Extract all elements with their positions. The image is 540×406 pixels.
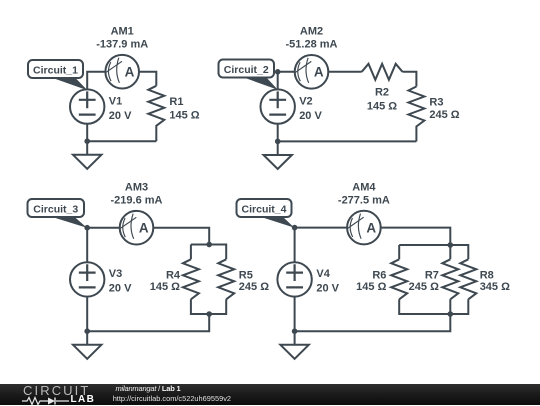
ammeter AM3 [120, 211, 154, 245]
svg-text:145 Ω: 145 Ω [367, 101, 397, 113]
svg-text:V2: V2 [299, 95, 312, 107]
svg-text:-51.28 mA: -51.28 mA [286, 39, 338, 51]
voltage source V1 [70, 89, 104, 123]
svg-text:R7: R7 [425, 270, 439, 282]
svg-text:245 Ω: 245 Ω [429, 109, 459, 121]
node top rail junction [206, 242, 212, 248]
svg-text:A: A [139, 221, 149, 236]
wire V4 bottom [294, 297, 296, 332]
svg-text:AM1: AM1 [111, 26, 134, 38]
svg-text:Circuit_4: Circuit_4 [242, 204, 287, 216]
ground G4 [280, 331, 308, 359]
wire bottom rail R4-R5 [191, 299, 226, 314]
node V4 bottom junction [292, 328, 298, 334]
svg-text:-137.9 mA: -137.9 mA [96, 39, 148, 51]
node V4 top junction [292, 225, 298, 231]
label AM4 reading [338, 182, 390, 207]
label R8 value [480, 270, 510, 294]
svg-text:AM2: AM2 [300, 26, 323, 38]
ground G2 [264, 141, 292, 169]
wire AM3 to parallel pair [153, 228, 209, 245]
resistor R3 [408, 87, 424, 142]
svg-text:145 Ω: 145 Ω [150, 281, 180, 293]
svg-text:20 V: 20 V [109, 283, 132, 295]
wire V3 bottom [86, 297, 88, 332]
svg-text:AM4: AM4 [352, 182, 376, 194]
voltage source V2 [261, 89, 295, 123]
svg-text:R2: R2 [375, 87, 389, 99]
wire top rail R4-R5 [191, 245, 226, 260]
ground G1 [73, 141, 101, 169]
label V2 value [299, 95, 322, 121]
svg-text:145 Ω: 145 Ω [356, 281, 386, 293]
svg-text:A: A [125, 65, 135, 80]
resistor R8 [460, 259, 476, 299]
svg-text:Circuit_2: Circuit_2 [224, 64, 269, 76]
net flag Circuit_1 [28, 60, 87, 90]
svg-text:-277.5 mA: -277.5 mA [338, 195, 390, 207]
resistor R5 [218, 259, 234, 299]
svg-text:245 Ω: 245 Ω [409, 281, 439, 293]
label R1 value [169, 96, 199, 121]
label R3 value [429, 97, 459, 122]
voltage source V4 [277, 262, 311, 296]
wire R2 to R3 [403, 72, 417, 87]
svg-text:145 Ω: 145 Ω [169, 109, 199, 121]
label V4 value [316, 268, 339, 294]
svg-text:R1: R1 [169, 96, 183, 108]
wire R3 bottom to V2 [278, 124, 417, 142]
svg-text:20 V: 20 V [316, 283, 339, 295]
svg-text:R8: R8 [480, 270, 494, 282]
svg-text:Circuit_1: Circuit_1 [33, 65, 78, 77]
resistor R7 [442, 259, 458, 299]
wire V4 top to AM4 [295, 228, 348, 263]
label AM2 reading [286, 26, 338, 51]
svg-text:R6: R6 [372, 270, 386, 282]
node V2 top junction [275, 69, 281, 75]
label R4 value [150, 270, 181, 294]
label R5 value [239, 270, 269, 294]
node V3 bottom junction [84, 328, 90, 334]
resistor R4 [183, 259, 199, 299]
wire parallel group to V4 [295, 314, 451, 331]
node V1-R1 junction [84, 138, 90, 144]
node V3 top junction [84, 225, 90, 231]
node bottom rail junction [206, 311, 212, 317]
label R7 value [409, 270, 439, 294]
wire AM1 to R1 [139, 72, 156, 86]
node V2-R3 junction [275, 139, 281, 145]
net flag Circuit_3 [28, 199, 87, 228]
resistor R2 [362, 64, 403, 80]
svg-text:AM3: AM3 [125, 182, 148, 194]
node top rail R7 junction [448, 242, 454, 248]
svg-text:A: A [366, 221, 376, 236]
svg-text:V1: V1 [109, 95, 122, 107]
label R6 value [356, 270, 386, 294]
wire AM4 to parallel group [381, 228, 451, 245]
svg-text:V4: V4 [316, 268, 330, 280]
footer url [113, 394, 231, 403]
label V3 value [109, 268, 132, 294]
CircuitLab logo LAB [71, 394, 96, 405]
svg-text:V3: V3 [109, 268, 122, 280]
svg-text:-219.6 mA: -219.6 mA [111, 195, 163, 207]
net flag Circuit_4 [237, 199, 295, 228]
svg-text:R4: R4 [166, 270, 181, 282]
wire V1 top to AM1 [87, 72, 105, 90]
label AM1 reading [96, 26, 148, 51]
voltage source V3 [70, 262, 104, 296]
net flag Circuit_2 [219, 60, 278, 90]
CircuitLab logo CIRCUIT [23, 383, 90, 398]
CircuitLab logo schematic doodle [22, 396, 72, 406]
ground G3 [73, 331, 101, 359]
label V1 value [109, 95, 132, 121]
svg-text:345 Ω: 345 Ω [480, 281, 510, 293]
label R2 value [367, 87, 397, 113]
resistor R6 [391, 259, 407, 299]
ammeter AM4 [347, 211, 381, 245]
wire V2 top to AM2 [278, 72, 295, 90]
wire top rail R6-R7-R8 [399, 245, 468, 259]
wire AM2 to R2 [328, 71, 361, 73]
svg-text:Circuit_3: Circuit_3 [33, 204, 78, 216]
wire bottom rail R6-R7-R8 [399, 299, 468, 314]
wire V3 top to AM3 [87, 228, 120, 263]
ammeter AM2 [295, 55, 329, 89]
footer title milanmangat / Lab 1 [116, 384, 181, 393]
svg-text:245 Ω: 245 Ω [239, 281, 269, 293]
svg-text:20 V: 20 V [109, 110, 132, 122]
svg-text:R3: R3 [429, 97, 443, 109]
resistor R1 [148, 86, 164, 141]
label AM3 reading [111, 182, 163, 207]
wire V1 bottom to R1 [87, 124, 156, 141]
ammeter AM1 [105, 55, 139, 89]
CircuitLab footer bar [0, 384, 540, 405]
wire parallel pair to V3 [87, 314, 209, 331]
svg-text:R5: R5 [239, 270, 253, 282]
svg-text:A: A [314, 65, 324, 80]
svg-text:20 V: 20 V [299, 110, 322, 122]
node bottom rail R7 junction [448, 311, 454, 317]
